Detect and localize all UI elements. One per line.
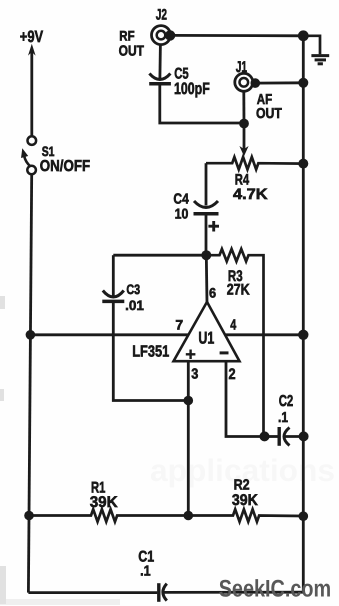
- ground: [311, 56, 329, 64]
- wire pin2 down to C2: [226, 361, 265, 436]
- op-amp U1: [174, 302, 240, 361]
- junction rail-R4: [298, 159, 308, 169]
- wire pin7: [30, 333, 188, 336]
- junction pin3-C3: [184, 396, 194, 406]
- wire bottom right: [164, 591, 304, 594]
- junction left-R1: [24, 511, 34, 521]
- svg-text:ON/OFF: ON/OFF: [40, 158, 91, 175]
- J1 label: [236, 59, 248, 76]
- svg-text:OUT: OUT: [119, 44, 145, 60]
- C3 labels: [125, 282, 144, 313]
- svg-text:RF: RF: [119, 28, 134, 43]
- svg-text:39K: 39K: [232, 492, 259, 509]
- capacitor C1: [159, 583, 167, 602]
- R4 labels: [233, 172, 268, 204]
- op-amp plus input mark: [186, 350, 196, 360]
- scan smudges: [0, 296, 120, 605]
- svg-text:C2: C2: [279, 393, 294, 410]
- wire node A down to C3: [112, 255, 115, 296]
- svg-text:OUT: OUT: [256, 106, 282, 122]
- junction rail-pin4: [298, 330, 308, 340]
- LF351 label: [132, 343, 169, 360]
- junction C2-left: [260, 431, 270, 441]
- wire node A left: [113, 254, 206, 257]
- J2 label: [156, 7, 167, 24]
- junction J1-right: [251, 78, 261, 88]
- resistor R2: [188, 509, 303, 521]
- svg-text:100pF: 100pF: [174, 80, 210, 98]
- wire pin3 down: [187, 361, 190, 515]
- pin 7 label: [175, 318, 183, 333]
- svg-text:applications: applications: [150, 453, 335, 488]
- U1 label: [198, 329, 214, 348]
- wire J1 to rail: [255, 81, 303, 84]
- svg-text:+9V: +9V: [20, 28, 43, 46]
- wire J2 to C5: [158, 45, 161, 79]
- wire rail right: [302, 36, 305, 592]
- capacitor C5: [149, 74, 171, 84]
- C4 plus sign: [208, 221, 219, 232]
- C5 labels: [174, 66, 210, 98]
- svg-text:LF351: LF351: [132, 343, 169, 360]
- wire J1 down to node B: [242, 91, 245, 123]
- svg-text:J1: J1: [236, 59, 248, 76]
- capacitor C3: [102, 291, 124, 302]
- wire C4 to node A: [205, 214, 208, 255]
- S1 labels: [40, 144, 91, 175]
- svg-text:6: 6: [209, 286, 217, 301]
- svg-text:7: 7: [175, 318, 183, 333]
- svg-text:10: 10: [175, 207, 189, 223]
- resistor R1: [29, 509, 188, 521]
- wire C3 down and right to pin3: [113, 301, 188, 400]
- wire bottom left: [28, 591, 157, 594]
- connector J2: [152, 26, 171, 45]
- svg-text:4: 4: [230, 318, 237, 334]
- wire R4 left down to C4: [205, 163, 208, 205]
- C1 labels: [138, 549, 154, 580]
- junction left-pin7: [26, 330, 36, 340]
- svg-text:3: 3: [191, 366, 198, 382]
- watermark SeekIC.com: [219, 576, 332, 603]
- svg-text:SeekIC.com: SeekIC.com: [219, 576, 332, 603]
- junction rail-C2: [299, 431, 309, 441]
- junction node A: [201, 250, 211, 260]
- AF OUT label: [256, 92, 282, 122]
- op-amp minus input mark: [220, 351, 229, 354]
- svg-text:4.7K: 4.7K: [233, 186, 268, 203]
- node +9V label: [20, 28, 43, 46]
- resistor R4: [206, 157, 303, 169]
- svg-text:U1: U1: [198, 329, 214, 348]
- pin 3 label: [191, 366, 198, 382]
- junction top-right: [298, 30, 309, 41]
- svg-text:.1: .1: [140, 564, 151, 580]
- svg-text:C4: C4: [173, 191, 188, 207]
- svg-text:J2: J2: [156, 7, 167, 24]
- power arrow +9V: [28, 44, 36, 137]
- resistor R3: [206, 249, 263, 437]
- svg-text:39K: 39K: [90, 494, 119, 511]
- wire pin4: [225, 333, 303, 336]
- junction rail-R2: [299, 511, 309, 521]
- watermark faint: [150, 453, 335, 488]
- capacitor C2: [265, 427, 304, 446]
- wire top (J2 to ground rail): [170, 34, 303, 37]
- junction pin3-R1R2: [184, 511, 194, 521]
- connector J1: [235, 73, 253, 91]
- svg-text:.01: .01: [125, 298, 144, 313]
- wire C5 to node B: [160, 84, 244, 123]
- potentiometer R4 wiper arrow: [239, 124, 248, 157]
- C4 labels: [173, 191, 188, 222]
- junction node B: [239, 119, 249, 129]
- pin 2 label: [229, 366, 236, 383]
- pin 6 label: [209, 286, 217, 301]
- wire ground stub: [303, 36, 320, 55]
- svg-text:2: 2: [229, 366, 236, 383]
- junction J2-right: [165, 30, 175, 40]
- svg-text:27K: 27K: [227, 282, 250, 299]
- wire left rail: [28, 174, 31, 592]
- R2 labels: [232, 478, 259, 510]
- capacitor C4: [194, 201, 219, 214]
- junction rail-J1: [298, 78, 308, 88]
- C2 labels: [278, 393, 293, 426]
- switch S1: [21, 136, 36, 174]
- R1 labels: [90, 479, 119, 510]
- svg-text:C3: C3: [126, 282, 140, 297]
- R3 labels: [227, 268, 250, 299]
- svg-text:.1: .1: [278, 410, 288, 426]
- RF OUT label: [119, 28, 145, 59]
- wire pin6: [205, 255, 208, 303]
- pin 4 label: [230, 318, 237, 334]
